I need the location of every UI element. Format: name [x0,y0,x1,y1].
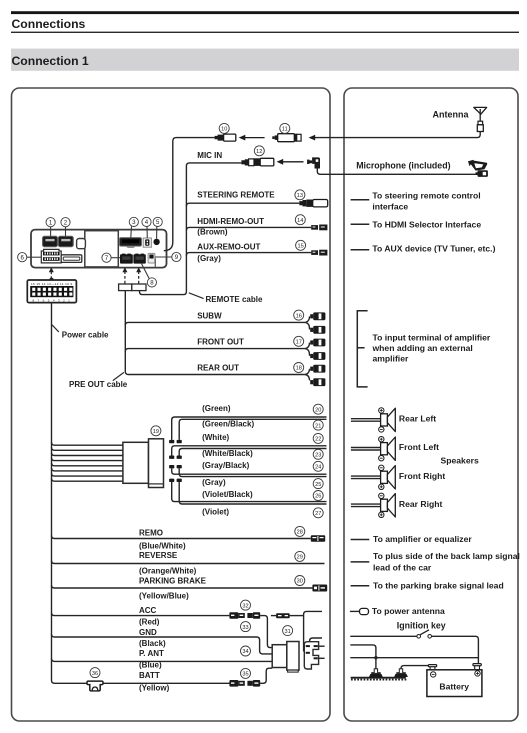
circled 35 [241,668,251,678]
connector 31 body left [272,645,287,668]
wire ACC [52,613,230,616]
svg-text:36: 36 [92,671,98,677]
svg-text:25: 25 [315,482,321,488]
circled 19 [151,426,161,436]
svg-text:22: 22 [315,437,321,443]
microphone symbol [468,160,488,177]
section gray bar [11,49,519,71]
svg-text:26: 26 [315,494,321,500]
dash to parking brake [351,585,370,587]
svg-text:(Green): (Green) [202,404,231,413]
circled 31 [283,626,293,636]
car-side connector pin line 1 [319,645,325,647]
circled 13 [295,190,305,200]
plug 10 (antenna extension socket) [215,134,236,141]
svg-text:16: 16 [296,313,302,319]
svg-text:(Black): (Black) [139,639,166,648]
svg-text:REMOTE cable: REMOTE cable [206,295,263,304]
connector 9 (small square port) [148,253,155,267]
antenna jack 5 [153,239,159,245]
wire antenna lead from head unit up to plug 10 [164,138,215,251]
branch wire SUBW [125,322,305,325]
circled 25 [313,479,323,489]
connector 4 [143,238,151,247]
wire REVERSE [52,561,325,564]
REMOTE cable pointer [189,293,204,299]
circled 17 [294,336,304,346]
svg-text:6: 6 [21,254,25,261]
svg-text:27: 27 [315,511,321,517]
plug 12 (mic extension socket) [241,158,273,166]
svg-text:18: 18 [296,366,302,372]
circled 3 [129,217,138,237]
speaker Rear Left [351,408,395,432]
circled 14 [295,215,305,225]
battery minus sign [431,672,436,677]
header thick rule [11,11,519,14]
svg-text:Antenna: Antenna [433,109,470,119]
plug 15 [311,250,327,256]
car-side connector top wire [310,638,322,642]
svg-text:HDMI-REMO-OUT: HDMI-REMO-OUT [197,217,264,226]
ACC fuse holder plug A [229,612,244,619]
svg-text:To AUX device (TV Tuner, etc.): To AUX device (TV Tuner, etc.) [372,244,495,254]
chassis ground bar [351,678,407,681]
circled 30 [295,576,305,586]
wire (Gray/Black) [172,468,327,474]
wire to power antenna stub [304,611,322,651]
svg-text:To amplifier or equalizer: To amplifier or equalizer [373,534,472,544]
plug 14 [311,225,327,231]
USB connector 1 [43,236,58,246]
chassis clamp 1 [369,669,383,677]
svg-text:(Green/Black): (Green/Black) [202,420,254,429]
pre-out cable plug (left, below unit) [119,284,132,291]
svg-text:Power cable: Power cable [62,331,109,340]
circled 28 [295,526,305,536]
svg-text:(Blue/White): (Blue/White) [139,541,186,550]
svg-text:14: 14 [297,218,303,224]
svg-text:Ignition key: Ignition key [397,620,446,630]
branch wire STEERING REMOTE [186,203,299,206]
svg-text:REAR OUT: REAR OUT [197,364,239,373]
svg-text:19: 19 [153,429,159,435]
svg-text:11: 11 [282,127,288,133]
dash to HDMI selector [351,223,370,225]
svg-text:16 15 14 13—12 11 10 9: 16 15 14 13—12 11 10 9 [31,282,73,286]
svg-text:33: 33 [242,625,248,631]
wire P.ANT [52,659,273,662]
accessory wire to chassis ground [350,645,376,672]
flat slot connector beside 6 [61,255,82,263]
circled 1 [46,218,55,237]
head unit left tab [77,239,86,249]
dash to amplifier [351,539,370,541]
svg-text:9: 9 [175,254,179,261]
REAR OUT RCA pair [305,365,325,386]
branch wire HDMI-REMO-OUT [186,227,311,230]
svg-text:12: 12 [256,149,262,155]
svg-text:BATT: BATT [139,671,160,680]
PRE OUT cable pointer [113,372,124,380]
svg-text:To power antenna: To power antenna [372,606,445,616]
HDMI connector 3 [120,238,142,248]
dashed arrow left plug to unit [122,267,127,283]
svg-text:23: 23 [315,453,321,459]
svg-text:lead of the car: lead of the car [373,562,432,572]
chassis clamp 2 [394,669,408,677]
svg-text:21: 21 [315,423,321,429]
svg-text:AUX-REMO-OUT: AUX-REMO-OUT [197,242,260,251]
left panel frame [12,88,331,721]
car-side connector pin line 2 [319,657,325,659]
svg-text:17: 17 [296,340,302,346]
svg-text:34: 34 [242,649,248,655]
svg-text:8: 8 [150,280,154,287]
head unit rear panel outline [31,230,167,268]
right panel frame [344,88,518,721]
pre-out cable trunk [125,291,305,375]
ground clamp 36 [87,681,103,691]
wire (Gray) [179,468,326,476]
svg-text:MIC IN: MIC IN [197,151,222,160]
svg-text:(Orange/White): (Orange/White) [139,566,197,575]
svg-text:32: 32 [242,603,248,609]
svg-text:Rear Right: Rear Right [399,499,443,509]
power cable 16-pin connector [27,278,76,303]
svg-text:PRE OUT cable: PRE OUT cable [69,380,128,389]
circled 29 [295,551,305,561]
label To plus side of back lamp [373,551,520,572]
dash to AUX device [351,249,370,251]
wire REMO [52,536,311,539]
svg-text:To the parking brake signal le: To the parking brake signal lead [373,580,504,590]
wire (White/Black) [179,449,326,456]
svg-text:13: 13 [297,193,303,199]
circled 5 [153,217,162,238]
plug 28 [311,535,325,541]
plug 11 (antenna adapter) [272,134,301,142]
svg-text:when adding an external: when adding an external [372,343,473,353]
ACC fuse holder plug B [247,612,260,619]
connector 31 body right [287,642,299,673]
terminal nubs level 3 [169,465,182,468]
svg-text:24: 24 [315,465,321,471]
svg-text:8 7 6 5 4 3 2 1: 8 7 6 5 4 3 2 1 [32,298,71,302]
circled 36 [90,668,100,678]
antenna lead from vehicle with arrow to plug 11 [309,132,481,141]
circled 33 [241,622,251,632]
speaker Front Right [351,465,395,489]
svg-text:Speakers: Speakers [441,456,479,466]
svg-text:amplifier: amplifier [373,353,409,363]
circled 23 [313,449,323,459]
battery terminal post minus [428,665,436,670]
ignition wire with switch [350,630,478,664]
svg-text:(White): (White) [202,433,229,442]
battery minus lead [401,666,428,672]
svg-text:(Violet): (Violet) [202,507,229,516]
svg-text:REMO: REMO [139,529,163,538]
speaker connector 19 body [123,442,149,483]
BATT fuse holder plug B [247,680,260,687]
FRONT OUT RCA pair [305,339,325,360]
circled 11 [280,123,290,133]
svg-text:GND: GND [139,628,157,637]
battery plus sign [475,671,480,676]
dashed arrow power connector to unit [49,267,54,279]
svg-text:(Gray/Black): (Gray/Black) [202,461,249,470]
remote cable bundle trunk [140,163,242,295]
car-side connector outline [304,642,318,669]
svg-text:20: 20 [315,407,321,413]
circled 7 [102,253,120,262]
remote cable plug (right, below unit) [132,284,146,291]
circled 21 [313,420,323,430]
svg-text:(Yellow/Blue): (Yellow/Blue) [139,591,189,600]
arrow mic plug to plug 12 [277,159,304,165]
USB connector 2 [58,236,73,246]
mic cable to right panel [317,169,477,175]
svg-text:10: 10 [221,127,227,133]
wire (Violet/Black) [172,482,327,502]
branch wire AUX-REMO-OUT [186,253,311,256]
speaker connector 19 front [149,439,164,488]
branch wire FRONT OUT [125,349,305,352]
circled 9 [155,252,181,261]
svg-text:FRONT OUT: FRONT OUT [197,338,244,347]
speaker Rear Right [351,493,395,517]
svg-text:30: 30 [297,579,303,585]
circled 12 [254,146,264,156]
svg-text:To plus side of the back lamp: To plus side of the back lamp signal [373,551,520,561]
battery box [427,670,482,697]
svg-text:28: 28 [297,530,303,536]
svg-text:REVERSE: REVERSE [139,551,178,560]
circled 24 [313,461,323,471]
circled 26 [313,491,323,501]
third wire to battery line [350,657,478,659]
svg-text:ACC: ACC [139,606,157,615]
circled 22 [313,433,323,443]
power cable trunk [52,303,230,683]
svg-text:To steering remote control: To steering remote control [372,191,480,201]
label To steering remote control interface [372,191,480,212]
dash to back lamp [351,561,370,563]
circled 4 [142,217,151,238]
ACC inline plug C [271,613,304,618]
wire GND [52,634,273,654]
terminal nubs level 4 [169,479,182,482]
wire (Green) [172,417,327,440]
svg-text:PARKING BRAKE: PARKING BRAKE [139,576,207,585]
battery terminal post plus [473,664,481,670]
car-side connector nubs [306,645,318,659]
svg-text:To input terminal of amplifier: To input terminal of amplifier [373,332,491,342]
BATT fuse holder plug A [229,680,244,687]
circled 34 [241,646,251,656]
svg-text:15: 15 [297,244,303,250]
svg-text:Connections: Connections [12,17,86,31]
circled 15 [296,240,306,250]
svg-text:P. ANT: P. ANT [139,649,164,658]
svg-text:(White/Black): (White/Black) [202,449,253,458]
svg-text:Front Right: Front Right [399,471,445,481]
svg-text:(Yellow): (Yellow) [139,684,170,693]
svg-text:35: 35 [242,672,248,678]
svg-text:Rear Left: Rear Left [399,413,436,423]
svg-text:31: 31 [284,629,290,635]
circled 20 [313,404,323,414]
dash to steering remote interface [351,199,370,201]
Power cable pointer [52,325,59,332]
svg-text:STEERING REMOTE: STEERING REMOTE [197,190,275,199]
plug 30 [312,585,327,592]
wire (Violet) [179,482,326,504]
svg-text:Microphone (included): Microphone (included) [356,160,450,170]
svg-text:29: 29 [297,555,303,561]
connector 7 (dual black connector) [120,254,146,264]
speaker Front Left [351,437,395,461]
svg-text:5: 5 [156,219,160,226]
terminal nubs level 2 [169,456,182,459]
svg-text:(Gray): (Gray) [197,254,221,263]
svg-text:Connection 1: Connection 1 [12,54,89,68]
dashed arrow right plug to unit [136,267,141,283]
svg-text:Front Left: Front Left [399,442,439,452]
svg-text:To HDMI Selector Interface: To HDMI Selector Interface [372,220,481,230]
svg-text:(Gray): (Gray) [202,478,226,487]
circled 2 [61,218,70,237]
svg-text:(Violet/Black): (Violet/Black) [202,490,253,499]
wire BATT rise to connector 31 [260,668,272,683]
antenna symbol [474,107,487,131]
power antenna stub symbol [350,608,369,614]
svg-text:Battery: Battery [439,681,469,691]
circled 8 [142,264,157,287]
circled 6 [18,253,42,262]
amplifier bracket [357,311,367,387]
circled 10 [219,123,229,133]
mic right-angle plug [307,157,320,168]
head unit raised white box [85,231,119,267]
circled 16 [294,310,304,320]
svg-text:interface: interface [372,202,408,212]
terminal nubs level 1 [169,440,182,443]
header thin rule [11,32,519,33]
wire (Green/Black) [179,419,326,440]
wire PARKING BRAKE [52,585,313,588]
svg-text:SUBW: SUBW [197,311,222,320]
wire (White) [172,446,327,456]
connector 6 (head unit 16-pin socket) [41,249,61,263]
circled 27 [313,508,323,518]
label amplifier note [372,332,491,363]
arrow plug11 to plug10 [239,135,265,141]
circled 32 [241,600,251,610]
svg-text:(Red): (Red) [139,617,160,626]
wire ACC drop to connector 31 [260,616,272,648]
speaker pigtail wires [52,442,123,481]
junction dot [374,656,377,659]
svg-text:(Brown): (Brown) [197,228,228,237]
plug 13 (steering remote socket) [299,200,327,207]
svg-text:(Blue): (Blue) [139,661,162,670]
SUBW RCA pair [305,312,325,333]
circled 18 [294,363,304,373]
